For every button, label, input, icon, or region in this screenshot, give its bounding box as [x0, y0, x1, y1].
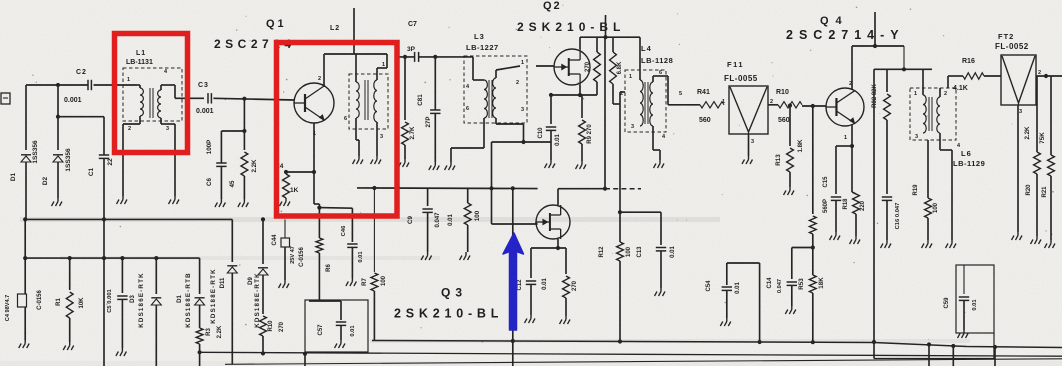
wire C13 row — [620, 211, 661, 213]
label LB-1227 — [466, 43, 499, 52]
box C59 — [956, 265, 994, 347]
wire bias col — [491, 142, 493, 224]
wire Q2 drain rail — [580, 35, 640, 49]
resistor R13 — [775, 106, 804, 188]
wire C2 to L1 box — [94, 84, 138, 86]
label L4 — [641, 44, 652, 53]
label Q1 — [266, 18, 287, 30]
rail 3b — [874, 347, 994, 359]
capacitor C2 — [64, 69, 91, 104]
ground R22 — [1031, 236, 1042, 244]
ground R9 — [576, 161, 587, 169]
resistor R20 270 — [585, 37, 600, 95]
capacitor C5 — [107, 258, 128, 348]
label Q2 — [543, 0, 562, 12]
wire drain col — [603, 37, 641, 191]
resistor R7b 100 — [362, 186, 387, 340]
wire D2 drop — [57, 85, 59, 150]
wire to C6 — [221, 131, 244, 163]
capacitor C9 — [407, 188, 433, 252]
ground L2 pin3 — [353, 156, 364, 164]
wire R16 out — [984, 75, 1001, 77]
resistor R18 220 — [843, 146, 866, 236]
annotation blue arrow — [503, 233, 524, 330]
ground R8 — [460, 252, 471, 260]
rail 1 — [23, 217, 232, 221]
wire vert 995 — [994, 347, 996, 366]
filter FL1 — [722, 86, 773, 145]
wire L2 feed — [353, 8, 355, 54]
diode D3 — [130, 258, 161, 366]
wire mid row — [357, 186, 538, 191]
filter FL2 — [1001, 55, 1041, 115]
capacitor C7 3P — [407, 21, 419, 62]
wire L3 pin3 bias — [523, 124, 525, 142]
wire Q2 source — [549, 85, 597, 97]
label L3 — [474, 32, 485, 41]
transformer L2 — [344, 54, 388, 156]
diode D9 — [248, 217, 268, 327]
ground FL1 — [742, 156, 753, 164]
diode D2 — [42, 155, 63, 198]
resistor R92 82K — [872, 69, 890, 146]
wire D1 drop — [25, 85, 27, 150]
ground R13 — [784, 187, 795, 195]
transformer L6 — [910, 69, 963, 240]
wire emitter down — [314, 172, 322, 238]
rail 2 — [23, 256, 200, 260]
wire step — [873, 343, 875, 359]
ground FL2 — [1012, 232, 1023, 240]
ground L6 — [946, 240, 957, 248]
capacitor C6 — [206, 140, 227, 199]
resistor R12 100 — [599, 212, 632, 341]
fet Q2 — [554, 49, 590, 85]
label LB-1128 — [641, 56, 673, 65]
label 0.047 mid — [435, 212, 454, 228]
ground R11 — [560, 316, 571, 324]
resistor R22 2.2K — [1024, 76, 1040, 236]
ground L2 pin5 — [371, 156, 382, 164]
module C-0156 right — [299, 247, 305, 267]
wire rail drop — [874, 46, 932, 71]
transistor Q1 — [294, 76, 334, 137]
capacitor C3 — [196, 82, 214, 115]
resistor R8 100 — [464, 188, 481, 252]
wire FL2 gnd — [1017, 105, 1019, 232]
wire C7 out — [419, 55, 473, 59]
ground R23 — [1045, 240, 1056, 248]
capacitor C13 — [637, 212, 676, 288]
ground C5 — [116, 348, 127, 356]
wire emitter row — [836, 145, 852, 147]
wire bias row — [492, 140, 552, 144]
capacitor C54 — [706, 263, 760, 341]
wire Q1 emitter — [312, 123, 316, 174]
label L2 — [330, 25, 340, 32]
wire vert 954 — [952, 346, 954, 366]
capacitor C15 560P — [823, 146, 841, 232]
box C57 — [303, 300, 368, 366]
ground C59 — [958, 330, 969, 338]
wire Q2 gate — [536, 65, 554, 67]
wire vert 929 — [928, 345, 930, 366]
ground C15 — [830, 232, 841, 240]
ground C13 — [655, 288, 666, 296]
wire gate row — [492, 223, 538, 225]
capacitor C10 — [538, 95, 561, 160]
wire rail up — [605, 15, 607, 37]
wire L4 out — [668, 104, 700, 106]
fet Q3 — [536, 205, 570, 239]
wire Q3 gate — [535, 222, 537, 224]
capacitor C14 — [767, 245, 815, 306]
resistor R41 560 — [697, 89, 724, 124]
ground R19 — [922, 240, 933, 248]
ground L1 secondary — [117, 160, 128, 204]
ground C12 — [525, 315, 536, 323]
wire C3 to Q1 — [213, 97, 294, 101]
label FL1 — [727, 60, 744, 69]
wire C6 drop — [243, 99, 245, 150]
label Q3 — [441, 286, 467, 300]
resistor R2 270 — [260, 316, 285, 356]
capacitor C12 — [517, 248, 536, 315]
wire vert 874 — [872, 69, 876, 344]
resistor R6 — [316, 238, 332, 300]
ground C6 — [215, 199, 226, 207]
ground R1 — [63, 342, 73, 350]
wire C57 top — [309, 301, 341, 320]
resistor R23 75K — [1039, 76, 1054, 240]
wire agc drop — [511, 224, 515, 366]
label FL-0052 — [995, 42, 1029, 51]
label FL-0055 — [724, 74, 758, 83]
wire FL2 out — [1036, 74, 1062, 78]
ground R7 — [399, 159, 410, 167]
wire top to C7 — [398, 55, 415, 59]
resistor R16 — [953, 58, 984, 92]
resistor R3 2.2K — [196, 305, 223, 366]
ground C10 — [545, 160, 556, 168]
ground L3 pin6 — [445, 162, 456, 170]
annotation red box 1 — [115, 34, 188, 153]
wire Q3 drain — [558, 189, 605, 205]
ground L1 secondary — [169, 196, 180, 204]
ground R4 — [280, 198, 291, 206]
label LB-1131 — [126, 59, 153, 66]
wire emitter to R4 — [284, 170, 314, 174]
capacitor C1 — [88, 117, 114, 366]
node A — [56, 83, 60, 87]
ground C14 — [785, 306, 796, 314]
ground C4 — [19, 340, 30, 348]
wire input — [26, 84, 88, 86]
capacitor C16 — [882, 146, 901, 240]
rail border2 — [225, 359, 1062, 365]
resistor R21 6.8K — [610, 37, 623, 104]
resistor R9 270 — [579, 95, 593, 161]
label 2SK210-BL top — [517, 20, 625, 34]
capacitor C44 — [272, 219, 296, 280]
node C6 — [242, 129, 246, 133]
transformer L3 — [451, 56, 527, 162]
rail 3 — [372, 339, 1062, 349]
resistor R11 270 — [542, 248, 578, 316]
annotation red box 2 — [277, 43, 398, 217]
wire FL1 out — [768, 104, 778, 106]
wire Q3 source — [531, 239, 566, 250]
label 1SS356 left — [32, 140, 39, 164]
wire to Q4 base — [788, 103, 826, 108]
ground C45 — [346, 278, 357, 286]
capacitor C57 — [318, 322, 356, 340]
wire FL1 gnd — [748, 134, 750, 156]
ground D2 — [52, 198, 63, 206]
resistor R10 560 — [776, 89, 802, 124]
diode D11 — [210, 219, 237, 364]
resistor R1 10K — [56, 258, 85, 342]
ground C57 — [335, 340, 346, 348]
wire R12 col — [618, 92, 625, 214]
transformer L4 — [620, 37, 682, 160]
rail border — [200, 352, 1062, 356]
ground C44 — [279, 280, 290, 288]
capacitor C45 — [319, 208, 364, 278]
ground R18 — [850, 236, 861, 244]
label 2SC2714 — [214, 37, 296, 51]
wire Q4 emitter — [850, 124, 854, 148]
label 2SK210-BL bottom — [394, 307, 503, 321]
module C-0156 left — [37, 290, 43, 310]
label LB-1129 — [953, 159, 985, 168]
wire vert 233 — [233, 270, 235, 366]
resistor R4 — [275, 163, 299, 198]
wire Q4 collector — [852, 12, 904, 90]
diode D1 — [10, 155, 31, 220]
diode D4 — [177, 258, 205, 328]
ground C16 — [881, 240, 892, 248]
transformer L1 — [123, 68, 204, 196]
transistor Q4 — [826, 81, 864, 141]
wire left col — [24, 219, 26, 258]
label FT2 — [998, 32, 1014, 41]
ground L4 pin4 — [654, 160, 665, 168]
ground R5 — [238, 199, 249, 207]
resistor R7 2.7K — [402, 57, 416, 159]
ground C54 — [720, 318, 731, 326]
capacitor C4 — [5, 258, 27, 340]
wire gate drop — [512, 188, 514, 224]
label L1 — [136, 50, 146, 57]
label 1SS356 right — [65, 148, 72, 172]
ground C81 — [429, 162, 440, 170]
wire to C1 — [58, 116, 104, 118]
resistor R53 18K — [798, 106, 825, 343]
capacitor C59 — [944, 265, 978, 330]
input connector — [1, 93, 10, 104]
resistor R5 2.2K — [229, 152, 258, 199]
label 2SC2714-Y — [786, 28, 905, 42]
label L6 — [961, 149, 972, 158]
wire Q1 collector — [324, 54, 387, 87]
capacitor C81 27P — [417, 57, 441, 162]
node B — [56, 115, 60, 119]
resistor R19 100 — [913, 140, 939, 240]
ground C9 — [421, 252, 432, 260]
label Q4 — [820, 15, 849, 27]
